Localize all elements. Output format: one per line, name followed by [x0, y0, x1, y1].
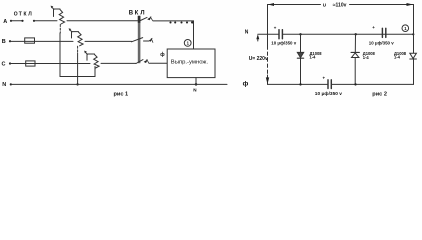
- svg-text:1-4: 1-4: [310, 55, 317, 60]
- svg-text:ф: ф: [160, 51, 165, 58]
- wire bottom rail left: [268, 83, 328, 85]
- D1 label: [310, 51, 323, 60]
- svg-text:10 μф/350 v: 10 μф/350 v: [369, 40, 394, 45]
- wire N (fig1): [10, 83, 227, 85]
- callout 1 (fig2): [402, 25, 409, 32]
- svg-text:ф: ф: [243, 80, 249, 87]
- breaker QF-B heater zigzag: [78, 32, 83, 46]
- svg-text:10 μф/350 v: 10 μф/350 v: [271, 40, 296, 45]
- wire phase C: [9, 62, 90, 64]
- wire bottom rail right: [332, 83, 414, 85]
- input arrow N terminal: [256, 34, 259, 41]
- capacitor C2: [382, 28, 385, 37]
- svg-text:ВКЛ: ВКЛ: [129, 11, 145, 17]
- breaker QF-B trip linkage to N (dashed then solid): [76, 46, 78, 85]
- capacitor C1: [279, 30, 282, 39]
- left dimension bus (U= 220v): [266, 5, 269, 85]
- lamp callout 1 (fig1): [184, 40, 191, 47]
- dimension line top (U ~110v): [268, 3, 414, 6]
- svg-text:U= 220v: U= 220v: [249, 56, 268, 62]
- wire W1 top: [258, 33, 279, 35]
- svg-text:N: N: [2, 82, 6, 88]
- wire phase A to winding element: [153, 20, 194, 22]
- breaker QF-B bracket: [69, 28, 79, 38]
- switch SA1 pole B blade and arrow: [132, 38, 153, 43]
- svg-text:А: А: [3, 19, 7, 25]
- svg-text:+: +: [274, 26, 277, 31]
- svg-text:С: С: [2, 62, 6, 68]
- svg-text:Выпр.-умнож.: Выпр.-умнож.: [171, 59, 209, 65]
- wire box to N: [195, 78, 198, 86]
- breaker QF-C heater zigzag: [94, 55, 99, 69]
- svg-text:10 μф/350 v: 10 μф/350 v: [315, 90, 342, 97]
- switch SA1 pole C blade and arrow: [136, 59, 149, 63]
- diode D1: [297, 34, 303, 84]
- fuse FU1: [25, 38, 35, 43]
- breaker QF-A heater zigzag: [59, 10, 64, 25]
- wire phase C after breaker: [101, 62, 136, 64]
- breaker QF-C bracket: [84, 51, 94, 61]
- svg-text:ОТКЛ: ОТКЛ: [14, 11, 32, 17]
- trip frame left bar: [59, 33, 61, 77]
- trip frame bottom bar: [60, 76, 95, 78]
- svg-text:рис 1: рис 1: [114, 91, 129, 97]
- wire phase A after breaker: [67, 20, 138, 22]
- winding element dots: [169, 21, 193, 23]
- svg-text:N: N: [245, 30, 249, 36]
- switch SA1 bar (3-pole): [138, 16, 141, 63]
- switch S1 (ОТКЛ) contact dots and wire: [10, 20, 35, 22]
- wire W1 mid: [283, 33, 415, 35]
- box U1 Выпр.-умнож: [167, 49, 215, 78]
- diode D2: [351, 34, 359, 84]
- wire phase B: [9, 40, 73, 42]
- svg-text:1-4: 1-4: [363, 55, 370, 60]
- breaker QF-A bracket: [51, 6, 60, 17]
- fuse FU2: [26, 61, 35, 66]
- D2 label: [363, 51, 376, 60]
- wire down to box: [193, 21, 195, 49]
- breaker QF-A trip linkage (dashed): [59, 25, 61, 34]
- svg-text:рис 2: рис 2: [372, 92, 387, 98]
- svg-text:1-4: 1-4: [394, 55, 401, 60]
- svg-text:+: +: [323, 75, 326, 80]
- svg-text:В: В: [2, 39, 6, 45]
- breaker QF-C trip linkage: [94, 67, 96, 77]
- switch SA1 pole A blade and arrow: [140, 16, 152, 20]
- wire phase C into box: [150, 62, 168, 64]
- svg-text:≈110v: ≈110v: [333, 3, 347, 9]
- svg-text:+: +: [372, 25, 375, 30]
- wire phase A to breaker: [34, 20, 57, 22]
- D3 label: [394, 51, 407, 60]
- diode D3: [410, 53, 417, 59]
- capacitor C3: [328, 80, 331, 89]
- wire phase B after breaker: [85, 40, 132, 42]
- right bus wire: [413, 5, 415, 85]
